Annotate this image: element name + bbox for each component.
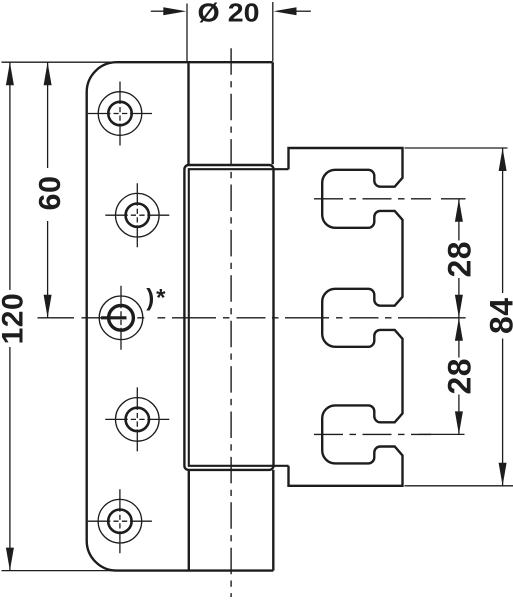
barrel vertical centerline <box>230 48 232 597</box>
dim 84 arrow up <box>499 148 507 171</box>
dim 28 arrow top up <box>455 199 463 222</box>
screw hole 2 inner circle <box>126 204 149 227</box>
dim 84 extension line top <box>405 147 508 149</box>
dim 120 extension line top <box>2 61 117 63</box>
dim 20 extension line left <box>186 4 188 62</box>
screw hole 5 horizontal centermark <box>88 520 152 522</box>
dim 20 left arrow tail <box>151 10 165 12</box>
screw hole 4 horizontal centermark <box>105 418 169 420</box>
screw hole 3 vertical centermark <box>120 286 122 350</box>
top knuckle right edge <box>272 62 274 164</box>
svg-text:28: 28 <box>442 358 478 395</box>
frame leaf plate outline with three hook cutouts <box>289 148 403 486</box>
screw hole 1 inner circle <box>108 102 131 125</box>
dim 28 extension line middle <box>430 317 466 319</box>
dim 84 line <box>502 148 504 486</box>
svg-text:28: 28 <box>442 241 478 278</box>
screw hole 4 inner circle <box>126 408 149 431</box>
screw hole 4 outer circle <box>116 398 160 442</box>
dim 20 right arrow <box>274 7 297 15</box>
screw hole 4 vertical centermark <box>136 387 138 451</box>
hook 1 horizontal centerline <box>314 198 431 200</box>
inner knuckle joint lines <box>189 169 289 466</box>
screw hole 3 inner circle <box>109 305 134 330</box>
dim 120 arrow up <box>6 62 14 85</box>
screw hole 5 outer circle <box>98 499 142 543</box>
dim 20 extension line right <box>272 2 274 62</box>
screw hole 1 vertical centermark <box>119 82 121 146</box>
screw hole 2 vertical centermark <box>136 183 138 247</box>
middle knuckle sleeve outline <box>184 165 273 470</box>
screw hole 3 outer circle <box>99 296 143 340</box>
dim 60 extension line bottom <box>38 317 75 319</box>
dim 84 extension line bottom <box>405 485 513 487</box>
screw hole 2 outer circle <box>116 193 160 237</box>
dim 120 line <box>9 62 11 570</box>
dim 60 arrow up <box>44 62 52 85</box>
dim 120 extension line bottom <box>2 570 118 572</box>
screw hole 2 horizontal centermark <box>105 214 169 216</box>
bottom knuckle left edge <box>188 470 190 571</box>
dim 20 right arrow tail <box>296 10 311 12</box>
dim 20 left arrow <box>163 7 186 15</box>
dim 28 arrows middle pair <box>455 295 463 318</box>
dim 84 arrow down <box>499 463 507 486</box>
screw hole 5 inner circle <box>108 510 131 533</box>
bottom knuckle right edge <box>272 470 274 571</box>
leaf plate outline (left hinge leaf, rounded left corners) <box>87 62 274 570</box>
dim 28 extension line bottom <box>419 433 465 435</box>
dim 120 arrow down <box>6 548 14 571</box>
screw hole 1 outer circle <box>98 92 142 136</box>
svg-text:60: 60 <box>33 176 67 211</box>
svg-text:)*: )* <box>146 285 167 312</box>
dim 28 extension line top <box>441 198 466 200</box>
dim 28 line <box>458 199 460 435</box>
svg-text:Ø 20: Ø 20 <box>198 0 260 27</box>
dim 60 line <box>47 62 49 318</box>
screw hole 3 horizontal centermark <box>82 317 166 319</box>
screw hole 1 horizontal centermark <box>88 113 152 115</box>
screw hole 5 vertical centermark <box>119 489 121 553</box>
svg-text:120: 120 <box>0 293 29 345</box>
screw hole 3 thick adjustment bar <box>101 316 127 319</box>
dim 60 arrow down <box>44 295 52 318</box>
hook 3 horizontal centerline <box>314 433 431 435</box>
svg-text:84: 84 <box>483 297 513 334</box>
hook 2 horizontal centerline <box>172 317 431 319</box>
top knuckle left edge <box>187 62 189 164</box>
dim 28 arrow bottom down <box>455 411 463 434</box>
